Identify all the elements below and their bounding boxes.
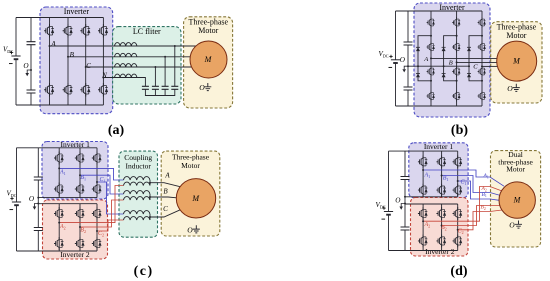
svg-text:O: O xyxy=(199,83,205,92)
wire inv1 leg1 (d) xyxy=(422,151,424,197)
svg-text:(b): (b) xyxy=(451,123,468,138)
capacitor C2 (d) xyxy=(401,227,410,230)
switch S2-5 inverter2 (d) xyxy=(436,234,446,247)
switch S8 (b) xyxy=(452,91,460,102)
node clamp mid x=469 (b) xyxy=(468,65,470,67)
motor box (b) xyxy=(491,22,542,103)
svg-text:(c): (c) xyxy=(134,264,154,279)
inductor Lb (a) xyxy=(115,53,137,56)
wire pair join 3 (c) xyxy=(149,214,151,220)
svg-text:B2: B2 xyxy=(80,228,86,234)
svg-text:M: M xyxy=(191,194,200,203)
wire left rail (d) xyxy=(388,151,390,250)
wire bottom rail (b) xyxy=(396,105,483,107)
wire leg1 (b) xyxy=(430,11,432,106)
switch S2 (b) xyxy=(427,42,435,53)
node A (b) xyxy=(430,57,432,59)
node clamp bot x=482 (b) xyxy=(481,80,483,82)
node C (b) xyxy=(481,65,483,67)
clamp diode D-top x=443.6 (b) xyxy=(442,47,446,51)
wire clamp branch leg x=456.6 (b) xyxy=(444,36,457,81)
inverter 2 box (c) xyxy=(43,200,108,259)
wire top rail (a) xyxy=(16,17,103,19)
inverter 1 box (c) xyxy=(42,142,108,200)
node N (a) xyxy=(102,77,104,79)
ground motor (c) xyxy=(193,225,200,233)
node O (b) xyxy=(407,65,409,67)
capacitor C2 (a) xyxy=(27,90,36,93)
switch S2-6 inverter2 (d) xyxy=(453,234,463,247)
switch S1-5 inverter1 (c) xyxy=(75,183,85,196)
node A (a) xyxy=(49,45,51,47)
motor M circle (d) xyxy=(499,182,535,218)
switch S1-2 inverter1 (c) xyxy=(75,152,85,165)
wire C1 (c) xyxy=(97,182,124,214)
capacitor C2 (b) xyxy=(404,87,413,90)
wire phase A (a) xyxy=(50,45,196,47)
wire B2 (c) xyxy=(80,200,124,227)
wire clamp branch leg x=431 (b) xyxy=(418,36,431,81)
switch S1-6 inverter1 (d) xyxy=(453,184,463,197)
svg-text:Inverter: Inverter xyxy=(439,3,465,12)
node clamp bot x=456.6 (b) xyxy=(456,80,458,82)
wire A2 (c) xyxy=(59,186,123,223)
coupling inductor box (c) xyxy=(119,151,158,237)
svg-text:C: C xyxy=(163,205,168,213)
svg-text:M: M xyxy=(512,57,521,66)
node A2 (c) xyxy=(58,222,60,224)
svg-text:Motor: Motor xyxy=(198,26,218,35)
wire C1 (d) xyxy=(458,181,500,200)
wire inv2 leg2 (d) xyxy=(441,204,443,251)
wire top rail (d) xyxy=(389,150,458,152)
wire left rail (b) xyxy=(395,11,397,106)
svg-text:Motor: Motor xyxy=(506,165,525,174)
wire dc-link rail (a) xyxy=(30,18,32,106)
svg-text:B1: B1 xyxy=(80,175,86,181)
svg-text:Inverter: Inverter xyxy=(64,7,90,16)
wire leg4 (a) xyxy=(102,18,104,106)
filter capacitor Cn (a) xyxy=(142,86,149,89)
capacitor C1 (b) xyxy=(404,42,413,45)
svg-text:VDC: VDC xyxy=(7,190,17,198)
battery polarity (a) xyxy=(10,51,13,54)
wire bottom rail (a) xyxy=(16,104,103,106)
switch S1-4 inverter1 (c) xyxy=(54,183,64,196)
wire inv1 leg2 (c) xyxy=(79,148,81,198)
LC filter box (a) xyxy=(113,27,181,104)
wire leg3 (b) xyxy=(481,11,483,106)
wire inv2 top rail (d) xyxy=(405,203,458,205)
wire C2 (d) xyxy=(458,210,502,230)
switch S2-1 inverter2 (d) xyxy=(418,207,428,220)
wire leg3 (a) xyxy=(85,18,87,106)
inductor Ln (a) xyxy=(115,74,137,77)
node pair A (c) xyxy=(149,182,151,184)
svg-text:O: O xyxy=(29,195,35,203)
switch S1-1 inverter1 (d) xyxy=(418,155,428,168)
node C1 (d) xyxy=(457,180,459,182)
switch S5 (b) xyxy=(452,17,460,28)
ground motor (b) xyxy=(513,84,520,92)
wire B1 (d) xyxy=(442,176,501,196)
wire inv2 top rail (c) xyxy=(38,203,97,205)
wire leg2 (a) xyxy=(67,18,69,106)
node clamp mid x=443.6 (b) xyxy=(443,65,445,67)
node C (a) xyxy=(85,66,87,68)
clamp diode D-bot x=443.6 (b) xyxy=(442,74,446,78)
wire inv1 leg2 (d) xyxy=(441,151,443,197)
wire cap drop B (a) xyxy=(164,57,166,87)
wire left rail (c) xyxy=(16,148,18,251)
svg-text:C2: C2 xyxy=(98,231,104,237)
inverter 1 box (d) xyxy=(409,143,468,198)
svg-text:O: O xyxy=(23,62,29,70)
node O (a) xyxy=(30,69,32,71)
battery VDC (c) xyxy=(12,201,21,203)
wire A1 (c) xyxy=(59,168,123,180)
wire inv1 bottom rail (d) xyxy=(405,196,458,198)
battery VDC (a) xyxy=(11,55,20,57)
capacitor C1 (d) xyxy=(401,177,410,180)
svg-text:C1: C1 xyxy=(461,180,467,186)
node inv1 bottom (c) xyxy=(37,197,39,199)
switch S1 (b) xyxy=(427,17,435,28)
svg-text:N: N xyxy=(101,71,107,79)
switch S12 (b) xyxy=(478,91,486,102)
switch S2-4 inverter2 (d) xyxy=(418,234,428,247)
switch S2-1 inverter2 (c) xyxy=(54,207,64,220)
switch S1-4 inverter1 (d) xyxy=(418,184,428,197)
svg-text:(d): (d) xyxy=(450,264,467,279)
capacitor C2 (c) xyxy=(34,228,43,231)
battery polarity (c) xyxy=(10,197,13,200)
switch S1-1 inverter1 (c) xyxy=(54,152,64,165)
coupling inductor winding 1b (c) xyxy=(124,182,150,185)
switch S2-5 inverter2 (c) xyxy=(75,237,85,250)
switch S11 (b) xyxy=(478,66,486,77)
node A1 (d) xyxy=(422,169,424,171)
svg-text:LC fliter: LC fliter xyxy=(133,27,161,36)
node B1 (d) xyxy=(441,175,443,177)
battery VDC (b) xyxy=(391,59,400,61)
switch S4 (b) xyxy=(427,91,435,102)
svg-text:VDC: VDC xyxy=(376,201,386,209)
node C2 (d) xyxy=(457,229,459,231)
coupling inductor winding 2a (c) xyxy=(124,191,150,194)
node clamp bot x=431 (b) xyxy=(430,80,432,82)
svg-text:A2: A2 xyxy=(59,224,66,230)
wire bottom rail (c) xyxy=(17,250,98,252)
svg-text:B: B xyxy=(70,51,75,59)
wire bottom rail (d) xyxy=(389,250,458,252)
coupling inductor winding 1a (c) xyxy=(124,177,150,180)
wire motor lead B (c) xyxy=(150,196,177,199)
coupling inductor winding 2b (c) xyxy=(124,197,150,200)
coupling inductor winding 3b (c) xyxy=(124,217,150,220)
node B1 (c) xyxy=(79,174,81,176)
switch S7 (b) xyxy=(452,66,460,77)
svg-text:O: O xyxy=(400,56,406,64)
node pair B (c) xyxy=(149,196,151,198)
wire leg1 (a) xyxy=(49,18,51,106)
svg-text:A: A xyxy=(164,171,170,179)
motor box (c) xyxy=(161,151,220,236)
clamp diode D-top x=469 (b) xyxy=(467,47,471,51)
svg-text:VDC: VDC xyxy=(379,50,389,58)
node C2 (c) xyxy=(96,230,98,232)
wire B1 (c) xyxy=(80,175,124,194)
wire clamp branch leg x=482 (b) xyxy=(469,36,482,81)
wire B2 (d) xyxy=(442,206,500,226)
wire pair join 1 (c) xyxy=(149,180,151,186)
switch S2 (a) xyxy=(44,83,54,96)
battery VDC (d) xyxy=(384,211,393,213)
wire inv2 leg3 (c) xyxy=(96,204,98,251)
switch S2-2 inverter2 (c) xyxy=(75,207,85,220)
wire left rail (a) xyxy=(15,18,17,106)
wire inv1 bottom rail (c) xyxy=(38,197,97,199)
svg-text:O: O xyxy=(507,84,513,93)
svg-text:O: O xyxy=(509,221,515,230)
switch S1-3 inverter1 (d) xyxy=(453,155,463,168)
clamp diode D-bot x=418 (b) xyxy=(416,74,420,78)
node drop A (a) xyxy=(174,45,176,47)
ground motor (d) xyxy=(515,221,522,229)
motor M circle (a) xyxy=(190,41,227,78)
svg-text:A1: A1 xyxy=(483,173,489,179)
switch S1-5 inverter1 (d) xyxy=(436,184,446,197)
battery polarity (d) xyxy=(382,206,385,209)
node drop C (a) xyxy=(154,66,156,68)
svg-text:A1: A1 xyxy=(59,170,66,176)
wire phase B (a) xyxy=(68,56,190,58)
svg-text:A: A xyxy=(423,56,428,63)
motor box (a) xyxy=(184,17,233,108)
node A1 (c) xyxy=(58,167,60,169)
switch S1 (a) xyxy=(44,24,54,37)
switch S7 (a) xyxy=(98,24,108,37)
svg-text:Inverter 1: Inverter 1 xyxy=(424,142,454,151)
svg-text:(a): (a) xyxy=(108,123,125,138)
node B (b) xyxy=(456,61,458,63)
wire inv2 leg1 (d) xyxy=(422,204,424,251)
node clamp top x=456.6 (b) xyxy=(456,35,458,37)
node O (d) xyxy=(404,203,406,205)
switch S2-6 inverter2 (c) xyxy=(92,237,102,250)
svg-text:Motor: Motor xyxy=(506,31,526,40)
node A2 (d) xyxy=(422,220,424,222)
svg-text:Motor: Motor xyxy=(181,161,200,170)
wire leg2 (b) xyxy=(456,11,458,106)
svg-text:A2: A2 xyxy=(424,222,431,228)
switch S1-6 inverter1 (c) xyxy=(92,183,102,196)
svg-text:B: B xyxy=(449,60,453,67)
inductor Lc (a) xyxy=(115,64,137,67)
wire phase N (a) xyxy=(103,78,145,87)
clamp diode D-bot x=469 (b) xyxy=(467,74,471,78)
switch S5 (a) xyxy=(80,24,90,37)
svg-text:C2: C2 xyxy=(458,229,464,235)
clamp diode D-top x=418 (b) xyxy=(416,47,420,51)
wire dc-link rail (b) xyxy=(407,11,409,106)
inverter box (a) xyxy=(40,7,113,114)
svg-text:O: O xyxy=(187,226,193,235)
svg-text:VDC: VDC xyxy=(3,46,13,54)
switch S1-2 inverter1 (d) xyxy=(436,155,446,168)
wire dc-link rail (d) xyxy=(404,151,406,250)
wire top rail (b) xyxy=(396,10,483,12)
wire phase B (b) xyxy=(457,61,497,63)
motor box (d) xyxy=(491,151,541,247)
svg-text:A: A xyxy=(50,40,56,48)
node B2 (c) xyxy=(79,226,81,228)
ground motor (a) xyxy=(204,83,211,91)
svg-text:B1: B1 xyxy=(443,176,449,182)
svg-text:C1: C1 xyxy=(100,177,106,183)
wire inv1 leg1 (c) xyxy=(58,148,60,198)
capacitor C1 (a) xyxy=(27,42,36,45)
node inv1 bottom (d) xyxy=(404,196,406,198)
inverter 2 box (d) xyxy=(411,198,469,257)
svg-text:A1: A1 xyxy=(424,173,431,179)
switch S1-3 inverter1 (c) xyxy=(92,152,102,165)
svg-text:B2: B2 xyxy=(441,225,447,231)
motor M circle (c) xyxy=(176,179,215,218)
switch S3 (a) xyxy=(63,24,73,37)
wire cap drop C (a) xyxy=(154,67,156,86)
wire cap bus (a) xyxy=(145,89,174,95)
wire dc-link rail (c) xyxy=(37,148,39,251)
wire A1 (d) xyxy=(423,170,504,186)
motor M circle (b) xyxy=(497,41,537,81)
wire O rail (b) xyxy=(408,65,469,67)
node B (a) xyxy=(67,56,69,58)
node clamp top x=482 (b) xyxy=(481,35,483,37)
wire A2 (d) xyxy=(423,187,502,222)
wire inv2 leg3 (d) xyxy=(457,204,459,251)
wire pair join 2 (c) xyxy=(149,194,151,200)
wire inv1 leg3 (c) xyxy=(96,148,98,198)
node B2 (d) xyxy=(441,225,443,227)
node drop B (a) xyxy=(164,56,166,58)
svg-text:Inverter 2: Inverter 2 xyxy=(425,247,455,256)
coupling inductor winding 3a (c) xyxy=(124,211,150,214)
switch S3 (b) xyxy=(427,66,435,77)
node clamp top x=431 (b) xyxy=(430,35,432,37)
filter capacitor Cb (a) xyxy=(162,86,169,89)
wire motor lead A (c) xyxy=(150,183,181,187)
node C1 (c) xyxy=(96,181,98,183)
svg-text:O: O xyxy=(395,197,401,205)
svg-text:C: C xyxy=(473,64,478,71)
inductor La (a) xyxy=(115,43,137,46)
switch S10 (b) xyxy=(478,42,486,53)
wire inv2 leg2 (c) xyxy=(79,204,81,251)
svg-text:M: M xyxy=(513,196,522,205)
switch S2-3 inverter2 (d) xyxy=(453,207,463,220)
wire top rail (c) xyxy=(17,147,98,149)
battery polarity (b) xyxy=(389,55,392,58)
wire phase A (b) xyxy=(431,57,497,59)
wire inv1 leg3 (d) xyxy=(457,151,459,197)
wire cap drop A (a) xyxy=(174,46,176,86)
wire phase C (a) xyxy=(86,66,192,68)
switch S2-4 inverter2 (c) xyxy=(54,237,64,250)
filter capacitor Ca (a) xyxy=(171,86,178,89)
filter capacitor Cc (a) xyxy=(152,86,159,89)
node clamp mid x=418 (b) xyxy=(417,65,419,67)
switch S6 (b) xyxy=(452,42,460,53)
svg-text:M: M xyxy=(204,55,213,64)
switch S2-3 inverter2 (c) xyxy=(92,207,102,220)
switch S2-2 inverter2 (d) xyxy=(436,207,446,220)
switch S8 (a) xyxy=(98,83,108,96)
svg-text:B: B xyxy=(163,187,168,195)
wire inv2 leg1 (c) xyxy=(58,204,60,251)
switch S4 (a) xyxy=(63,83,73,96)
wire motor lead C (c) xyxy=(150,210,180,217)
switch S6 (a) xyxy=(80,83,90,96)
svg-text:C: C xyxy=(86,62,91,70)
svg-text:Inductor: Inductor xyxy=(125,161,151,170)
switch S9 (b) xyxy=(478,17,486,28)
inverter box (b) xyxy=(414,3,490,117)
wire C2 (c) xyxy=(97,220,124,231)
node pair C (c) xyxy=(149,216,151,218)
node O (c) xyxy=(37,203,39,205)
wire phase C (b) xyxy=(482,65,497,67)
capacitor C1 (c) xyxy=(34,177,43,180)
